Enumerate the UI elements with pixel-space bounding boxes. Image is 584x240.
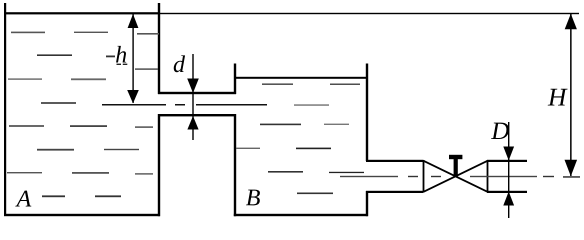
label H xyxy=(548,89,568,106)
pipe upper wall right section xyxy=(487,160,527,162)
valve stem xyxy=(454,158,458,177)
tank B bottom xyxy=(234,214,368,216)
H dimension arrowhead down xyxy=(565,160,578,176)
tank A right wall lower segment xyxy=(158,114,160,216)
valve body diagonal top-left to bottom-right xyxy=(424,161,488,192)
label h xyxy=(116,46,126,63)
tank A right wall upper segment xyxy=(158,3,160,94)
orifice centerline long dash right xyxy=(196,104,267,106)
tank A bottom xyxy=(4,214,160,216)
pipe centerline long dash through outlet xyxy=(340,176,398,177)
water dashes tank A row3 xyxy=(8,78,106,80)
water dashes tank B row3 xyxy=(236,148,331,150)
label d xyxy=(174,55,185,72)
label B xyxy=(246,190,260,206)
valve body right flange xyxy=(487,160,489,192)
orifice centerline dash in tank B xyxy=(294,104,329,105)
d dimension arrowhead down xyxy=(187,79,199,94)
water dashes tank A row6 xyxy=(37,149,139,151)
H dimension arrowhead up xyxy=(565,14,577,29)
h dimension arrowhead down xyxy=(127,90,139,103)
water dash tank A row4 xyxy=(41,102,76,104)
tank B water surface line xyxy=(236,77,366,79)
tank B left wall lower segment xyxy=(234,114,236,216)
valve handle T-bar xyxy=(449,155,462,159)
h dimension line xyxy=(132,14,133,103)
water dashes tank A row5 xyxy=(9,125,153,128)
valve body left flange xyxy=(423,160,425,192)
tank B right wall upper segment xyxy=(366,64,368,162)
pipe upper wall left section xyxy=(366,160,424,162)
pipe lower wall left section xyxy=(366,191,424,193)
label D xyxy=(491,123,509,139)
water dashes tank B row2 xyxy=(260,124,349,126)
tick marks under label h xyxy=(117,64,122,65)
free-surface reference line extending right xyxy=(160,13,579,14)
tank A water surface line xyxy=(4,12,160,14)
water dashes tank A row7 xyxy=(7,172,153,175)
water dashes tank A row2 xyxy=(37,54,115,57)
D dimension extension line xyxy=(508,122,509,218)
water dashes tank A row8 xyxy=(42,195,121,197)
orifice tube bottom wall xyxy=(158,114,236,116)
d dimension arrowhead up xyxy=(187,116,198,130)
water dashes tank A row1 xyxy=(11,32,159,35)
orifice centerline short dash xyxy=(175,104,185,106)
pipe centerline solid through right pipe xyxy=(470,176,537,177)
orifice centerline long dash left xyxy=(102,104,166,106)
pipe centerline dash xyxy=(408,176,418,177)
pipe lower wall right section xyxy=(487,191,527,193)
H dimension line xyxy=(570,14,572,176)
pipe centerline end dash xyxy=(563,176,580,178)
d dimension extension line xyxy=(192,54,193,140)
water dash tank A near wall xyxy=(135,68,158,69)
pipe centerline dash after pipe xyxy=(543,176,554,177)
tank B right wall lower segment xyxy=(366,191,368,216)
water dashes tank B row1 xyxy=(262,83,360,85)
pipe centerline dash in valve xyxy=(431,176,441,177)
water dash tank B row5 xyxy=(297,193,333,195)
valve body diagonal bottom-left to top-right xyxy=(424,161,488,192)
tank A left wall xyxy=(4,3,6,216)
label A xyxy=(15,191,31,207)
D dimension arrowhead down xyxy=(503,147,514,161)
D dimension arrowhead up xyxy=(503,192,514,206)
water dashes tank B row4 xyxy=(268,171,364,173)
h dimension arrowhead up xyxy=(128,14,139,28)
orifice tube top wall xyxy=(158,92,236,94)
tank B left wall upper segment xyxy=(234,64,236,95)
